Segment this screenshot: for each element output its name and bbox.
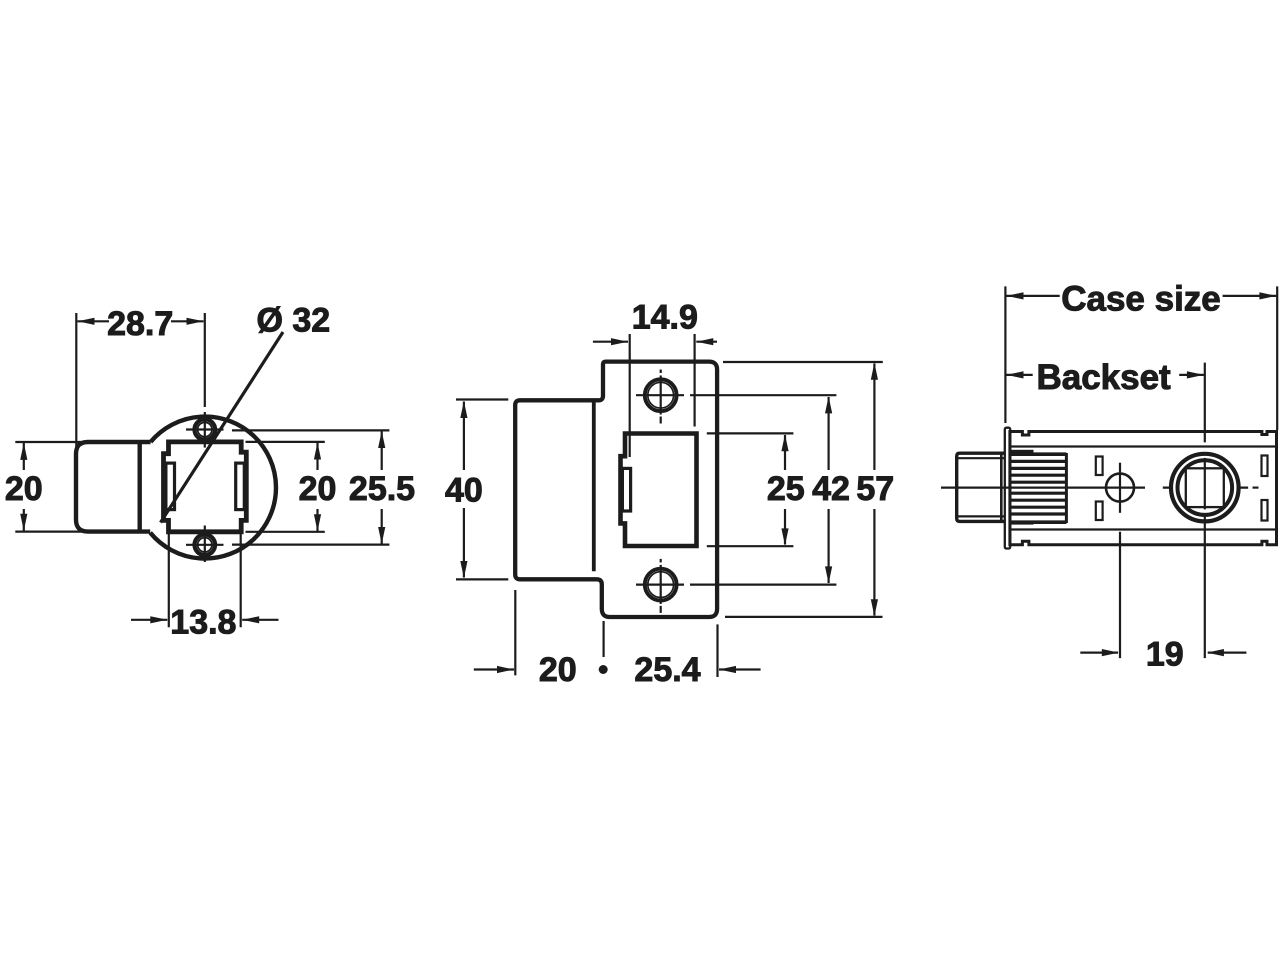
follower hole (small) xyxy=(1106,474,1134,502)
bottom screw hole xyxy=(645,569,677,601)
svg-text:Backset: Backset xyxy=(1036,358,1171,397)
svg-text:14.9: 14.9 xyxy=(632,299,698,337)
dimension 57 (plate height) xyxy=(723,361,883,363)
dimension 20 (left, barrel height) xyxy=(15,441,83,443)
dimension 25.5 (screw spacing) xyxy=(232,429,389,431)
svg-text:25.5: 25.5 xyxy=(349,470,415,508)
spring clip xyxy=(622,468,630,511)
knurled plug xyxy=(1010,452,1066,456)
flange circle xyxy=(150,417,276,559)
square cutout with side notches xyxy=(164,442,247,532)
case outline with notches xyxy=(1010,432,1277,545)
barrel/flange boundary xyxy=(137,442,141,532)
dimension 42 (screw spacing) xyxy=(690,394,836,396)
left spring clip xyxy=(166,463,175,510)
dimension 25 (opening height) xyxy=(707,432,794,434)
dimension 20 (right, cutout height) xyxy=(246,441,325,443)
svg-text:Ø 32: Ø 32 xyxy=(257,301,331,339)
dust box right inner edge xyxy=(592,401,596,571)
svg-text:20: 20 xyxy=(539,651,577,689)
top screw hole xyxy=(195,419,216,440)
svg-text:20: 20 xyxy=(299,470,337,508)
bottom dimensions 20 and 25.4 xyxy=(514,590,516,675)
latch bolt xyxy=(957,453,1006,521)
dimension 40 (box height) xyxy=(456,398,508,400)
svg-text:Case size: Case size xyxy=(1061,280,1221,319)
svg-text:40: 40 xyxy=(445,471,483,509)
main axis centerline xyxy=(941,487,1145,489)
svg-text:25.4: 25.4 xyxy=(634,651,700,689)
bottom screw hole xyxy=(195,535,216,556)
dimension 13.8 (cutout width) xyxy=(168,534,170,627)
top screw hole xyxy=(645,379,677,411)
right spring clip xyxy=(236,463,245,510)
svg-text:20: 20 xyxy=(5,470,43,508)
svg-text:57: 57 xyxy=(856,470,894,508)
dimension Case size xyxy=(1004,286,1006,423)
dimension 14.9 xyxy=(629,334,631,457)
svg-text:19: 19 xyxy=(1146,635,1184,673)
dimension 19 xyxy=(1080,651,1118,653)
faceplate xyxy=(1005,428,1010,549)
svg-text:25: 25 xyxy=(767,470,805,508)
dimension 28.7 xyxy=(75,313,77,448)
dimension Backset xyxy=(1007,374,1033,376)
svg-text:28.7: 28.7 xyxy=(107,305,173,343)
svg-text:42: 42 xyxy=(812,470,850,508)
retaining slots xyxy=(1096,457,1103,476)
vertical centerline xyxy=(204,313,206,407)
case seam lines xyxy=(1010,445,1277,447)
spindle follower xyxy=(1171,454,1239,522)
barrel tab rounded rect xyxy=(76,442,151,532)
strike plate and dust box outline xyxy=(515,362,717,617)
svg-text:13.8: 13.8 xyxy=(170,603,236,641)
latch opening with notch xyxy=(621,434,697,547)
